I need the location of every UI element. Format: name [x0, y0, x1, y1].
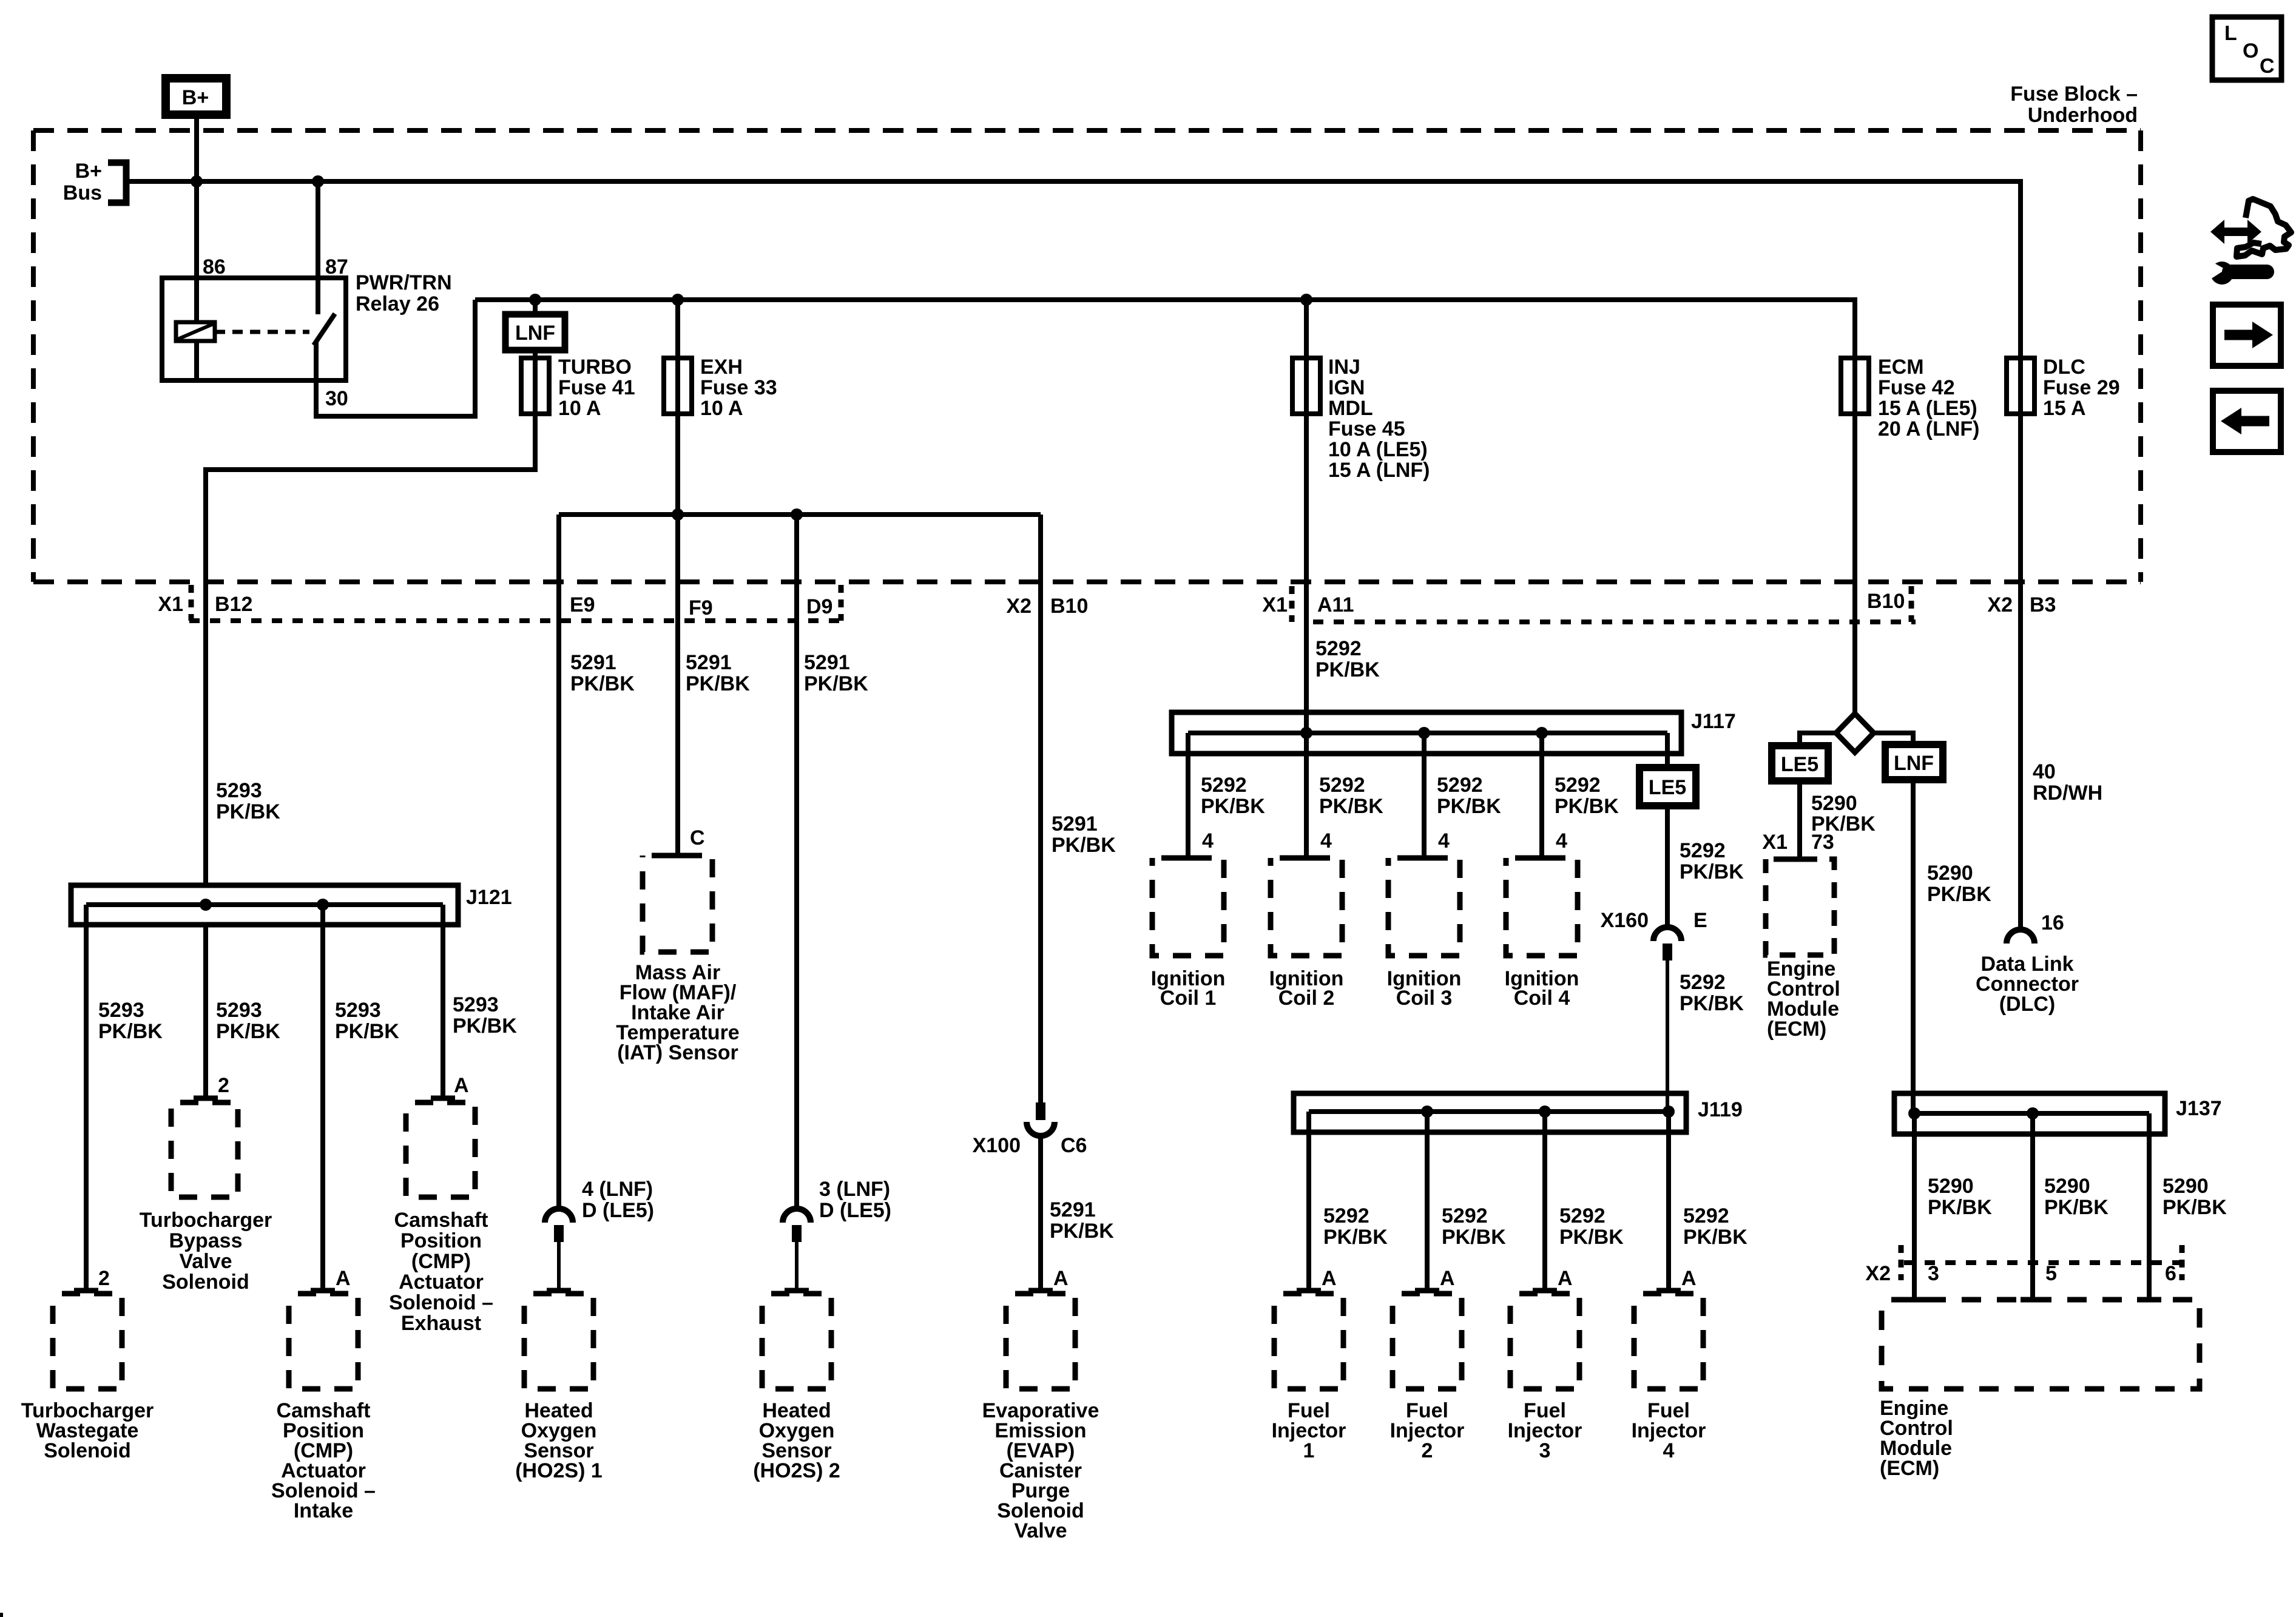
svg-text:5290: 5290 — [1928, 1175, 1974, 1198]
svg-text:E9: E9 — [570, 593, 595, 616]
terminal tick HO2S1 — [547, 1288, 571, 1294]
svg-text:86: 86 — [203, 255, 226, 279]
svg-text:B+: B+ — [182, 86, 209, 109]
svg-text:4 (LNF): 4 (LNF) — [582, 1178, 653, 1201]
svg-text:D (LE5): D (LE5) — [582, 1199, 654, 1222]
svg-text:A: A — [1440, 1267, 1455, 1290]
svg-text:PK/BK: PK/BK — [216, 1020, 280, 1043]
wire label 5293 PK/BK — [98, 999, 163, 1043]
engine code tag LE5 (coil feed) — [1639, 768, 1696, 806]
page corner mark — [0, 1613, 3, 1617]
wire J119 to fuel injector 4 — [1666, 1112, 1671, 1291]
wire label 5293 PK/BK (B12 feed) — [216, 779, 280, 823]
svg-text:MDL: MDL — [1328, 397, 1373, 420]
svg-text:PK/BK: PK/BK — [1442, 1226, 1506, 1249]
svg-text:B10: B10 — [1050, 595, 1088, 618]
wire label 5291 PK/BK (F9) — [686, 651, 750, 695]
connector X2 row (ECM 3 5 6) dashed line — [1901, 1245, 2184, 1280]
svg-text:3: 3 — [1539, 1439, 1551, 1462]
svg-text:5291: 5291 — [686, 651, 732, 674]
Fuse Block - Underhood label — [2010, 83, 2138, 127]
terminal tick CMP intake — [311, 1288, 335, 1294]
junction node B+ riser on bus — [191, 175, 203, 187]
component box engine control module (ECM bottom) — [1882, 1300, 2200, 1389]
component box MAF/IAT sensor — [643, 856, 712, 952]
svg-text:4: 4 — [1663, 1439, 1675, 1462]
svg-text:2: 2 — [98, 1267, 110, 1290]
svg-text:5290: 5290 — [2044, 1175, 2090, 1198]
wire label 5292 PK/BK (injector 1) — [1323, 1204, 1388, 1249]
svg-text:3: 3 — [1928, 1262, 1939, 1285]
svg-text:J137: J137 — [2176, 1097, 2222, 1120]
svg-text:LE5: LE5 — [1649, 776, 1686, 799]
svg-text:PK/BK: PK/BK — [98, 1020, 163, 1043]
svg-text:Coil 3: Coil 3 — [1396, 987, 1453, 1010]
svg-text:B12: B12 — [215, 593, 252, 616]
svg-text:PK/BK: PK/BK — [1928, 1196, 1992, 1219]
fuse feed wire from relay 30 across to ECM fuse — [475, 300, 1855, 358]
svg-text:A: A — [1681, 1267, 1697, 1290]
svg-text:5292: 5292 — [1315, 637, 1362, 660]
svg-text:PK/BK: PK/BK — [570, 672, 635, 695]
terminal tick EVAP — [1028, 1288, 1053, 1294]
terminal tick HO2S2 — [785, 1288, 809, 1294]
svg-text:LNF: LNF — [1894, 752, 1934, 775]
fuse block underhood dashed border — [33, 130, 2141, 582]
fuse EXH Fuse 33 10A — [664, 300, 777, 420]
svg-text:A: A — [454, 1074, 469, 1097]
inline connector to HO2S2 (arc and pin) — [783, 1209, 811, 1291]
wire label 5292 PK/BK (coil 3) — [1437, 774, 1501, 818]
wire J119 to fuel injector 2 — [1425, 1112, 1430, 1291]
splice pack J121 — [71, 885, 512, 925]
svg-text:PK/BK: PK/BK — [216, 800, 280, 823]
svg-text:4: 4 — [1438, 829, 1450, 852]
splice diamond (ECM fuse output) — [1836, 714, 1874, 752]
relay switch blade — [314, 314, 335, 345]
svg-text:(IAT) Sensor: (IAT) Sensor — [617, 1041, 738, 1064]
svg-text:Fuse 41: Fuse 41 — [558, 376, 635, 399]
svg-text:D (LE5): D (LE5) — [819, 1199, 891, 1222]
svg-text:X2: X2 — [1006, 595, 1032, 618]
wire label 5292 PK/BK (injector 3) — [1559, 1204, 1624, 1249]
engine code tag LE5 (ECM) — [1772, 746, 1828, 781]
svg-text:(CMP): (CMP) — [411, 1250, 471, 1273]
terminal tick MAF — [666, 853, 690, 859]
wire J119 to fuel injector 1 — [1306, 1112, 1311, 1291]
B+ Bus bracket — [108, 163, 126, 203]
svg-text:5291: 5291 — [1050, 1198, 1096, 1221]
svg-text:5292: 5292 — [1680, 839, 1726, 862]
svg-text:Solenoid: Solenoid — [44, 1439, 131, 1462]
tee wire for sensor feeds — [559, 512, 1041, 517]
svg-text:A: A — [1558, 1267, 1573, 1290]
fuse DLC Fuse 29 15A — [2007, 356, 2120, 420]
svg-text:B10: B10 — [1867, 590, 1905, 613]
terminal tick coil 1 — [1176, 856, 1200, 861]
svg-text:5293: 5293 — [335, 999, 381, 1022]
svg-text:2: 2 — [218, 1074, 229, 1097]
wire label 40 RD/WH (DLC) — [2033, 760, 2102, 805]
svg-text:10 A: 10 A — [700, 397, 743, 420]
svg-text:PK/BK: PK/BK — [1315, 658, 1380, 681]
svg-text:15 A (LE5): 15 A (LE5) — [1878, 397, 1977, 420]
component box engine control module (LE5) — [1766, 859, 1834, 955]
wire E9 to HO2S1 — [556, 515, 561, 1209]
wire label 5291 PK/BK (E9) — [570, 651, 635, 695]
service diagnostics icon (double arrow, part outline, wrench) — [2207, 199, 2291, 285]
svg-text:X2: X2 — [1865, 1262, 1891, 1285]
svg-text:PK/BK: PK/BK — [1319, 795, 1383, 818]
wire label 5291 PK/BK (EVAP upper) — [1052, 812, 1116, 857]
svg-text:DLC: DLC — [2043, 356, 2085, 379]
wire LNF tag to TURBO fuse — [533, 350, 538, 364]
svg-text:J117: J117 — [1691, 710, 1736, 733]
terminal tick ECM 73 — [1788, 857, 1812, 862]
svg-text:(HO2S) 1: (HO2S) 1 — [515, 1459, 603, 1482]
svg-text:Coil 1: Coil 1 — [1160, 987, 1217, 1010]
svg-text:(DLC): (DLC) — [1999, 993, 2056, 1016]
svg-text:E: E — [1693, 909, 1707, 932]
svg-text:10 A: 10 A — [558, 397, 601, 420]
svg-text:A: A — [336, 1267, 351, 1290]
svg-text:X160: X160 — [1601, 909, 1649, 932]
svg-text:D9: D9 — [806, 595, 832, 618]
wire F9 to MAF/IAT sensor — [675, 515, 680, 856]
component box HO2S2 — [762, 1294, 831, 1389]
wire ECM fuse output to splice diamond — [1852, 358, 1857, 715]
svg-text:PK/BK: PK/BK — [2044, 1196, 2109, 1219]
relay actuation dashed link — [215, 330, 309, 334]
component box ignition coil 1 — [1152, 858, 1224, 956]
inline connector to HO2S1 (arc and pin) — [545, 1209, 573, 1291]
wire label 5292 PK/BK (coil 2) — [1319, 774, 1383, 818]
svg-text:PK/BK: PK/BK — [1323, 1226, 1388, 1249]
wire diamond left to LE5 tag — [1800, 733, 1836, 746]
svg-text:1: 1 — [1303, 1439, 1315, 1462]
svg-text:Solenoid: Solenoid — [162, 1271, 249, 1294]
svg-text:B3: B3 — [2030, 593, 2056, 616]
svg-text:Actuator: Actuator — [399, 1271, 484, 1294]
svg-text:Camshaft: Camshaft — [394, 1209, 488, 1232]
svg-text:Coil 4: Coil 4 — [1514, 987, 1570, 1010]
component box turbocharger bypass valve solenoid — [171, 1102, 238, 1197]
svg-text:Turbocharger: Turbocharger — [140, 1209, 272, 1232]
svg-text:A11: A11 — [1317, 593, 1354, 616]
svg-text:J121: J121 — [466, 886, 512, 909]
wire J121 to turbocharger bypass valve solenoid — [203, 925, 208, 1098]
wire label 5293 PK/BK — [453, 993, 517, 1038]
svg-text:X1: X1 — [1762, 831, 1788, 854]
wire LE5 tag to X160 — [1665, 806, 1670, 927]
wire label 5292 PK/BK (A11 feed) — [1315, 637, 1380, 681]
wire J137 to ECM pin 6 — [2147, 1113, 2152, 1300]
svg-text:ECM: ECM — [1878, 356, 1924, 379]
wire label 5292 PK/BK (injector 4) — [1683, 1204, 1747, 1249]
B+ Bus label — [63, 160, 102, 204]
junction node relay 87 riser on bus — [312, 175, 324, 187]
svg-text:15 A (LNF): 15 A (LNF) — [1328, 459, 1430, 482]
B+ bus wire across fuse block to DLC fuse — [126, 181, 2021, 358]
svg-text:X2: X2 — [1987, 593, 2013, 616]
svg-text:INJ: INJ — [1328, 356, 1360, 379]
svg-text:5292: 5292 — [1559, 1204, 1606, 1227]
component box ignition coil 4 — [1506, 858, 1578, 956]
terminal tick coil 3 — [1412, 856, 1436, 861]
svg-text:5292: 5292 — [1555, 774, 1601, 797]
svg-text:PK/BK: PK/BK — [1683, 1226, 1747, 1249]
svg-text:5290: 5290 — [1811, 792, 1857, 815]
wire J117 to ignition coil 3 — [1422, 733, 1427, 858]
svg-text:A: A — [1053, 1267, 1069, 1290]
svg-text:5292: 5292 — [1680, 971, 1726, 994]
svg-text:5290: 5290 — [2163, 1175, 2209, 1198]
svg-text:EXH: EXH — [700, 356, 743, 379]
svg-text:IGN: IGN — [1328, 376, 1365, 399]
pin label 3 (LNF) D (LE5) HO2S2 — [819, 1178, 891, 1222]
connector X1 row (B12 E9 F9 D9) dashed line — [189, 585, 841, 621]
svg-text:(ECM): (ECM) — [1767, 1018, 1826, 1041]
back arrow box — [2213, 391, 2281, 452]
wire J121 to CMP actuator solenoid exhaust — [441, 905, 445, 1098]
terminal tick coil 4 — [1530, 856, 1554, 861]
wire label 5291 PK/BK (D9) — [804, 651, 868, 695]
svg-text:Valve: Valve — [1015, 1519, 1067, 1542]
svg-text:J119: J119 — [1698, 1098, 1743, 1121]
wire J119 to fuel injector 3 — [1542, 1112, 1547, 1291]
L O C legend box — [2212, 17, 2281, 80]
svg-text:Underhood: Underhood — [2028, 104, 2138, 127]
terminal tick coil 2 — [1294, 856, 1319, 861]
svg-text:PK/BK: PK/BK — [1437, 795, 1501, 818]
terminal tick ECM pin 5 — [2021, 1297, 2045, 1303]
svg-text:Bus: Bus — [63, 181, 102, 204]
svg-text:PK/BK: PK/BK — [1927, 883, 1991, 906]
component box CMP actuator solenoid exhaust — [406, 1102, 475, 1197]
svg-text:LNF: LNF — [515, 322, 555, 345]
svg-text:C: C — [690, 826, 705, 849]
wire label 5290 PK/BK (pin 5) — [2044, 1175, 2109, 1219]
svg-text:Bypass: Bypass — [169, 1229, 243, 1252]
component box fuel injector 1 — [1274, 1294, 1343, 1389]
svg-text:16: 16 — [2041, 911, 2064, 934]
svg-text:30: 30 — [325, 387, 348, 410]
wire label 5290 PK/BK (LNF) — [1927, 862, 1991, 906]
svg-text:(ECM): (ECM) — [1880, 1457, 1939, 1480]
svg-text:5292: 5292 — [1201, 774, 1247, 797]
engine code tag LNF (TURBO fuse) — [505, 314, 565, 350]
svg-text:PK/BK: PK/BK — [2163, 1196, 2227, 1219]
svg-text:PK/BK: PK/BK — [686, 672, 750, 695]
svg-text:Position: Position — [400, 1229, 482, 1252]
svg-text:4: 4 — [1202, 829, 1214, 852]
engine code tag LNF (ECM) — [1885, 744, 1943, 780]
inline connector X100 pin C6 (pin and arc) — [1027, 1102, 1055, 1291]
wire label 5293 PK/BK — [216, 999, 280, 1043]
junction node EXH fuse tap — [672, 294, 684, 306]
svg-text:PK/BK: PK/BK — [1559, 1226, 1624, 1249]
terminal tick CMP exhaust — [431, 1096, 455, 1101]
svg-text:Intake: Intake — [294, 1499, 353, 1522]
svg-text:Exhaust: Exhaust — [401, 1312, 481, 1335]
wire label 5290 PK/BK (pin 3) — [1928, 1175, 1992, 1219]
svg-text:5292: 5292 — [1437, 774, 1483, 797]
component box ignition coil 3 — [1388, 858, 1460, 956]
component box fuel injector 4 — [1634, 1294, 1703, 1389]
terminal tick ECM pin 6 — [2137, 1297, 2161, 1303]
svg-text:PK/BK: PK/BK — [1201, 795, 1265, 818]
wire J117 to ignition coil 4 — [1539, 733, 1544, 858]
svg-text:B+: B+ — [75, 160, 102, 183]
svg-text:4: 4 — [1320, 829, 1332, 852]
terminal tick injector 2 — [1415, 1288, 1439, 1294]
component box HO2S1 — [524, 1294, 593, 1389]
svg-text:5291: 5291 — [804, 651, 850, 674]
svg-text:RD/WH: RD/WH — [2033, 781, 2102, 805]
svg-text:Fuse 33: Fuse 33 — [700, 376, 777, 399]
wire TURBO fuse output to connector B12 — [206, 414, 535, 885]
wire LE5 tag to ECM pin 73 — [1797, 781, 1802, 859]
svg-text:LE5: LE5 — [1781, 753, 1818, 776]
wire B+ terminal down to relay pin 86 — [194, 119, 199, 322]
inline connector data link (arc) — [2007, 930, 2034, 944]
svg-text:15 A: 15 A — [2043, 397, 2086, 420]
svg-text:5: 5 — [2045, 1262, 2057, 1285]
svg-text:2: 2 — [1422, 1439, 1433, 1462]
wire bus to relay pin 87 — [316, 181, 320, 314]
inline connector X160 pin E (arc and pin) — [1653, 927, 1681, 1112]
wire J121 to CMP actuator solenoid intake — [320, 905, 325, 1291]
wire J117 to ignition coil 1 — [1186, 733, 1190, 858]
terminal tick injector 4 — [1656, 1288, 1681, 1294]
svg-text:87: 87 — [325, 255, 348, 279]
wire J137 to ECM pin 3 — [1912, 1113, 1917, 1300]
svg-text:Valve: Valve — [180, 1250, 232, 1273]
splice pack J137 — [1894, 1093, 2222, 1134]
terminal tick wastegate — [74, 1288, 98, 1294]
svg-text:O: O — [2243, 39, 2258, 62]
svg-text:(HO2S) 2: (HO2S) 2 — [753, 1459, 840, 1482]
svg-text:PK/BK: PK/BK — [1555, 795, 1619, 818]
wire J121 to turbocharger wastegate solenoid — [84, 905, 89, 1291]
wire label 5293 PK/BK — [335, 999, 399, 1043]
svg-text:Fuse 29: Fuse 29 — [2043, 376, 2120, 399]
svg-text:PWR/TRN: PWR/TRN — [356, 271, 452, 294]
svg-text:20 A (LNF): 20 A (LNF) — [1878, 417, 1979, 441]
svg-text:5292: 5292 — [1319, 774, 1365, 797]
wire label 5290 PK/BK (LE5 ECM) — [1811, 792, 1876, 836]
junction node HO2S2 drop — [791, 508, 803, 521]
fuse ECM Fuse 42 — [1841, 356, 1979, 441]
svg-text:A: A — [1322, 1267, 1337, 1290]
battery positive B+ terminal box — [161, 74, 231, 119]
relay coil — [176, 322, 215, 380]
svg-text:5293: 5293 — [216, 779, 262, 802]
wire relay pin 30 to fuse feed line — [316, 300, 475, 416]
svg-text:F9: F9 — [689, 596, 713, 619]
wire diamond right to LNF tag — [1874, 733, 1913, 744]
svg-text:40: 40 — [2033, 760, 2056, 783]
wire tap down to LNF tag — [533, 300, 538, 314]
svg-text:TURBO: TURBO — [558, 356, 632, 379]
svg-text:5291: 5291 — [570, 651, 616, 674]
wire J117 right end to LE5 tag — [1665, 733, 1670, 768]
svg-text:X1: X1 — [158, 593, 183, 616]
terminal tick bypass — [194, 1096, 218, 1101]
component box EVAP canister purge solenoid valve — [1006, 1294, 1075, 1389]
svg-text:5290: 5290 — [1927, 862, 1973, 885]
svg-text:5293: 5293 — [453, 993, 499, 1016]
svg-text:Solenoid –: Solenoid – — [389, 1291, 493, 1314]
wire label 5292 PK/BK (above X160) — [1680, 839, 1744, 883]
wire label 5292 PK/BK (coil 4) — [1555, 774, 1619, 818]
svg-text:C: C — [2260, 55, 2275, 78]
splice pack J117 — [1172, 710, 1736, 754]
svg-text:PK/BK: PK/BK — [804, 672, 868, 695]
component box fuel injector 2 — [1393, 1294, 1462, 1389]
data link connector label — [1976, 953, 2079, 1016]
wire EXH fuse output to tee — [675, 414, 680, 515]
fuse TURBO Fuse 41 10A — [521, 356, 635, 420]
svg-text:6: 6 — [2165, 1262, 2176, 1285]
wire J137 to ECM pin 5 — [2030, 1113, 2035, 1300]
wire J117 to ignition coil 2 — [1304, 733, 1309, 858]
wire label 5292 PK/BK (below X160) — [1680, 971, 1744, 1015]
component box turbocharger wastegate solenoid — [53, 1294, 122, 1389]
svg-text:73: 73 — [1811, 831, 1834, 854]
svg-text:10 A (LE5): 10 A (LE5) — [1328, 438, 1428, 461]
svg-text:Fuse 45: Fuse 45 — [1328, 417, 1405, 441]
svg-text:PK/BK: PK/BK — [1052, 834, 1116, 857]
component box fuel injector 3 — [1510, 1294, 1579, 1389]
wire INJ fuse output to J117 — [1304, 414, 1309, 733]
svg-text:PK/BK: PK/BK — [1680, 860, 1744, 883]
wire label 5291 PK/BK (EVAP lower) — [1050, 1198, 1114, 1243]
junction node TURBO fuse tap — [529, 294, 541, 306]
svg-text:L: L — [2224, 22, 2237, 45]
svg-text:Coil 2: Coil 2 — [1278, 987, 1335, 1010]
relay PWR/TRN Relay 26 box — [162, 278, 346, 380]
svg-text:5293: 5293 — [216, 999, 262, 1022]
wire label 5292 PK/BK (injector 2) — [1442, 1204, 1506, 1249]
component box CMP actuator solenoid intake — [289, 1294, 358, 1389]
wire D9 to HO2S2 — [794, 515, 799, 1209]
svg-text:X1: X1 — [1262, 593, 1288, 616]
connector X1 row (A11..B10) dashed line — [1292, 586, 1916, 622]
wire LNF tag to J137 — [1911, 780, 1916, 1113]
svg-text:5291: 5291 — [1052, 812, 1098, 836]
svg-text:Fuse 42: Fuse 42 — [1878, 376, 1955, 399]
svg-text:PK/BK: PK/BK — [1050, 1220, 1114, 1243]
component box ignition coil 2 — [1271, 858, 1342, 956]
svg-text:Fuse Block –: Fuse Block – — [2010, 83, 2138, 106]
pin label 4 (LNF) D (LE5) HO2S1 — [582, 1178, 654, 1222]
svg-text:Relay 26: Relay 26 — [356, 292, 439, 316]
svg-text:3 (LNF): 3 (LNF) — [819, 1178, 890, 1201]
svg-text:PK/BK: PK/BK — [1680, 992, 1744, 1015]
svg-text:C6: C6 — [1061, 1134, 1087, 1157]
svg-text:5292: 5292 — [1683, 1204, 1729, 1227]
svg-text:PK/BK: PK/BK — [453, 1014, 517, 1038]
splice pack J119 — [1294, 1093, 1743, 1132]
svg-text:5292: 5292 — [1323, 1204, 1369, 1227]
terminal tick injector 1 — [1297, 1288, 1321, 1294]
wire label 5290 PK/BK (pin 6) — [2163, 1175, 2227, 1219]
wire label 5292 PK/BK (coil 1) — [1201, 774, 1265, 818]
svg-text:X100: X100 — [973, 1134, 1021, 1157]
junction node INJ fuse tap — [1300, 294, 1312, 306]
forward arrow box — [2213, 305, 2281, 366]
